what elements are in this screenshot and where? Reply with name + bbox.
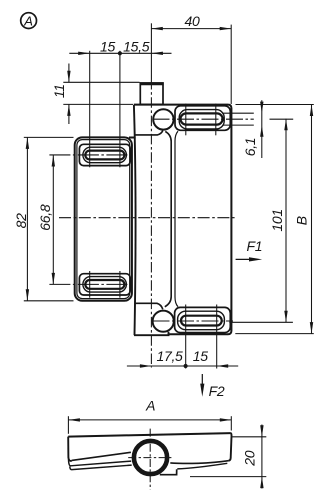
force F2 (200, 374, 204, 397)
barrel bottom step (134, 303, 162, 309)
svg-text:20: 20 (242, 450, 258, 466)
dimension 66,8 (52, 155, 55, 284)
top right pad outer (175, 106, 230, 131)
right leaf left edge inner (175, 131, 178, 307)
left plate outer (75, 137, 132, 300)
svg-text:17,5: 17,5 (156, 348, 183, 364)
svg-text:15: 15 (193, 348, 208, 364)
svg-text:101: 101 (269, 209, 285, 231)
left bottom slot tick 2 (119, 271, 121, 298)
bottom view vertical centerline (149, 429, 151, 490)
svg-text:82: 82 (13, 213, 29, 228)
left blade mid line (69, 460, 132, 466)
left top slot middle (83, 147, 127, 163)
svg-text:66,8: 66,8 (37, 204, 53, 231)
dimension 6,1 (260, 100, 263, 158)
dimension 101 (284, 119, 287, 322)
bottom view top edge (68, 433, 231, 437)
knob on barrel top (140, 83, 164, 104)
left top slot hole (85, 151, 124, 160)
bottom right pad middle (178, 311, 225, 330)
left slot center tick 1 (89, 51, 91, 168)
left bottom slot hole (85, 280, 124, 289)
svg-text:B: B (294, 216, 310, 225)
top right slot (181, 113, 223, 124)
left slots centerline top (49, 154, 128, 156)
bottom view right end cap (229, 433, 232, 461)
left plate top edge extension to barrel (129, 137, 136, 139)
dimension B (235, 105, 313, 334)
svg-text:40: 40 (185, 13, 200, 29)
right leaf outline (134, 105, 232, 335)
svg-text:11: 11 (51, 84, 67, 98)
top right pad middle (179, 110, 224, 129)
svg-text:F2: F2 (209, 383, 225, 399)
right bottom slot ticks (185, 305, 187, 369)
view label circle A (21, 13, 37, 29)
right bottom slot centerline (153, 320, 234, 322)
dimension 82 (24, 137, 74, 300)
dimension 11 (63, 64, 139, 125)
top pin circle (153, 109, 173, 129)
left top slot outer (79, 144, 130, 165)
left blade bottom line (70, 465, 132, 470)
left slots centerline bottom (49, 283, 128, 285)
bottom right pad outer (175, 307, 231, 332)
left bottom slot outer (79, 274, 130, 295)
barrel bottom edge (134, 332, 169, 336)
svg-text:15,5: 15,5 (123, 39, 150, 55)
barrel top step (134, 131, 162, 135)
right top slot ticks (185, 104, 187, 136)
svg-text:A: A (145, 397, 155, 413)
step under barrel (160, 469, 177, 474)
dimension A (68, 416, 231, 434)
force F1 (236, 257, 263, 261)
right blade lower bottom line (177, 463, 227, 469)
right top slot centerline (153, 118, 254, 120)
svg-text:A: A (23, 13, 33, 28)
left bottom slot tick 1 (89, 271, 91, 298)
left blade top line (72, 452, 131, 460)
dimension 40 (151, 25, 231, 104)
left plate inner (77, 140, 130, 299)
main view centerline vertical (150, 23, 152, 367)
bottom view left end cap (68, 437, 71, 461)
left bottom slot middle (83, 277, 127, 293)
bottom view horizontal centerline (128, 457, 173, 459)
right blade upper bottom line (170, 461, 228, 464)
dimension 15 / 15,5 (69, 51, 171, 55)
bottom view barrel ring (134, 441, 167, 474)
dimension 20 (190, 425, 266, 489)
svg-text:6,1: 6,1 (242, 138, 258, 157)
right leaf left edge outer (165, 131, 171, 306)
main horizontal centerline (59, 217, 237, 219)
svg-text:F1: F1 (247, 238, 263, 254)
left slot center tick 2 (119, 51, 121, 168)
bottom pin circle (153, 311, 174, 332)
dimension 17,5 / 15 bottom (127, 364, 238, 368)
slot edge extensions for 6,1 (222, 112, 254, 114)
barrel left edge (134, 105, 136, 335)
svg-text:15: 15 (100, 39, 115, 55)
bottom right slot (181, 316, 222, 326)
